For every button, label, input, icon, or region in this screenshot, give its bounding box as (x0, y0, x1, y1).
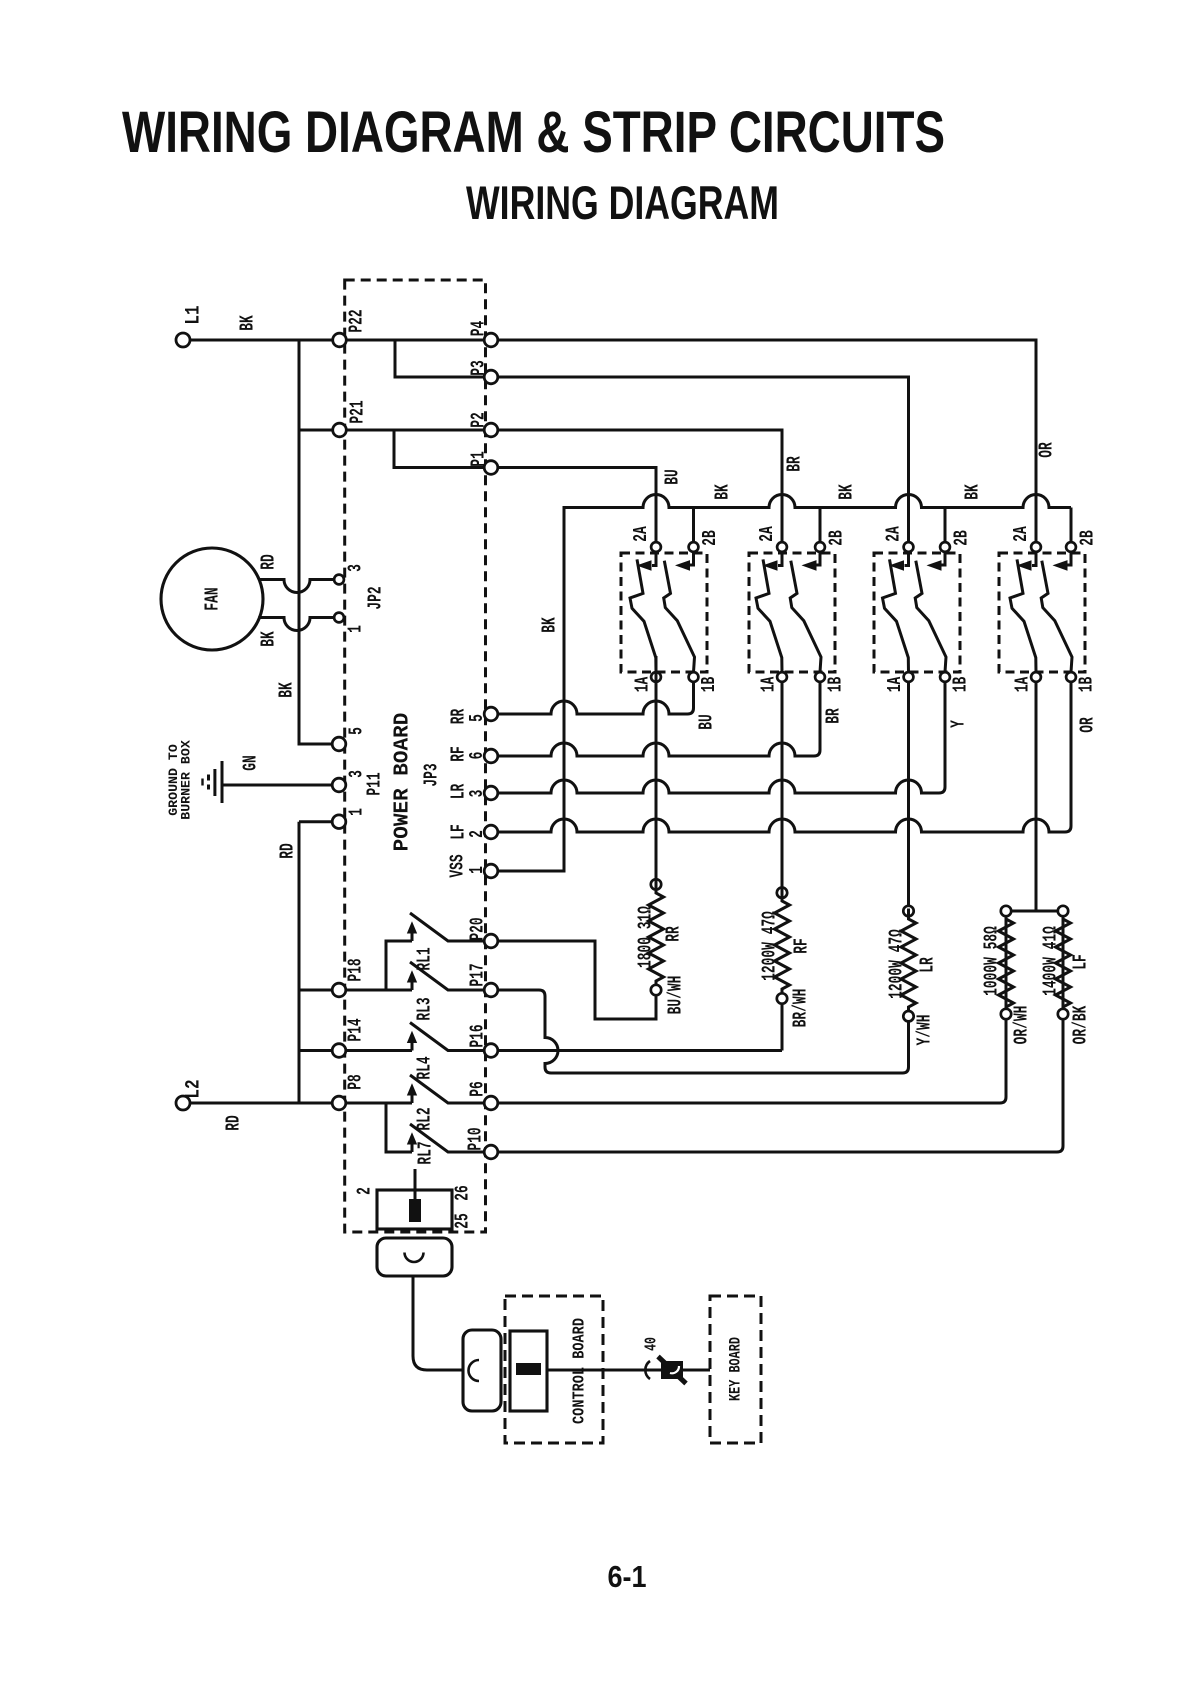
switch 1 2A lead into arrow (652, 552, 656, 566)
wire VSS to BK bus (with hops over element columns) (498, 495, 1071, 871)
connector P2 (484, 423, 498, 437)
connector P6 (484, 1096, 498, 1110)
svg-text:L1: L1 (183, 305, 205, 324)
svg-text:1200W 47Ω: 1200W 47Ω (885, 929, 907, 999)
element RR top terminal (651, 879, 661, 889)
switch 1 right contact blade (664, 561, 695, 673)
switch 2 terminal 2B (815, 542, 825, 552)
control board dashed outline (505, 1296, 603, 1443)
wire P22 to P4 (346, 339, 484, 342)
relay RL1 actuator shaft (411, 932, 414, 941)
switch 4 terminal 1A (1031, 672, 1041, 682)
svg-text:RF: RF (790, 938, 812, 954)
svg-text:RL3: RL3 (413, 997, 435, 1020)
relay RL2 blade (410, 1075, 484, 1103)
connector JP3 pin 5 (RR) (484, 707, 498, 721)
connector P22 (333, 333, 347, 347)
svg-text:2A: 2A (1009, 526, 1031, 542)
svg-text:KEY BOARD: KEY BOARD (727, 1337, 745, 1401)
svg-text:P10: P10 (464, 1127, 486, 1150)
wire element RR bottom loop to P20 (498, 941, 656, 1019)
wire switch 1 1A down to element RR (655, 682, 658, 880)
svg-text:1: 1 (345, 808, 367, 816)
wire P16 to RF bottom (498, 1049, 782, 1052)
svg-text:P21: P21 (346, 400, 368, 423)
wire fan RD to JP2 pin 3 with dip hop (259, 580, 334, 593)
svg-text:BURNER BOX: BURNER BOX (179, 740, 194, 820)
switch 2 terminal 2A (777, 542, 787, 552)
switch 2 right arrowhead (803, 561, 816, 570)
wire JP3-6 RF to switch 2 1B (with hops) (498, 682, 820, 756)
ground bar 2 (213, 769, 216, 796)
switch 4 right contact blade (1041, 561, 1072, 673)
terminal L2 (176, 1096, 190, 1110)
power board dashed outline (345, 280, 486, 1232)
wire JP3-5 RR to switch 1 1B (with hops) (498, 682, 694, 714)
element LR bottom terminal (903, 1011, 913, 1021)
svg-text:P8: P8 (344, 1074, 366, 1090)
svg-text:2A: 2A (882, 526, 904, 542)
feed wire for relay RL1 (386, 941, 412, 990)
svg-text:1A: 1A (883, 677, 905, 693)
control board mating connector (463, 1330, 501, 1411)
feed wire for relay RL2 (346, 1102, 412, 1105)
switch 2 left contact blade (756, 559, 782, 672)
relay RL4 actuator arrowhead (408, 1032, 417, 1043)
connector P18 (332, 983, 346, 997)
wire switch 2 1A down to element RF (781, 682, 784, 888)
wire L1 branch vertical BK to P11 pin 5 (299, 340, 332, 744)
switch 4 terminal 1B (1066, 672, 1076, 682)
relay RL1 actuator arrowhead (408, 923, 417, 934)
svg-text:P2: P2 (467, 412, 489, 428)
svg-text:BK: BK (538, 617, 560, 633)
svg-text:GN: GN (239, 755, 261, 771)
svg-text:2A: 2A (755, 526, 777, 542)
svg-text:1200W 47Ω: 1200W 47Ω (758, 911, 780, 981)
connector below power board (377, 1238, 452, 1276)
relay RL3 actuator shaft (411, 981, 414, 990)
svg-text:BR/WH: BR/WH (789, 989, 811, 1028)
svg-text:OR: OR (1035, 442, 1057, 458)
switch 1 terminal 1A (651, 672, 661, 682)
svg-text:3: 3 (344, 564, 366, 572)
svg-text:1: 1 (465, 866, 487, 874)
switch 4 2A lead into arrow (1032, 552, 1036, 566)
relay coil feed wire (414, 1169, 417, 1202)
feed wire for relay RL7 (386, 1103, 412, 1152)
control board connector contact (filled) (516, 1363, 541, 1375)
element RR bottom terminal (651, 985, 661, 995)
relay RL7 blade (410, 1124, 484, 1152)
svg-text:RL7: RL7 (414, 1141, 436, 1164)
svg-text:2B: 2B (825, 530, 847, 546)
switch 1 terminal 2B (689, 542, 699, 552)
wire P11 pin 3 to ground (GN) (222, 784, 332, 787)
fan motor FAN (161, 548, 263, 650)
relay RL3 actuator arrowhead (408, 972, 417, 983)
wire switch 3 1A down to element LR (907, 682, 910, 907)
wire switch 4 1A down to LF junction (1035, 682, 1038, 911)
svg-text:1B: 1B (824, 677, 846, 693)
svg-text:LR: LR (916, 957, 938, 973)
svg-text:1A: 1A (1011, 677, 1033, 693)
switch 1 terminal 2A (651, 542, 661, 552)
element RF top terminal (777, 888, 787, 898)
connector P4 (484, 333, 498, 347)
element LF-B top terminal (1058, 906, 1068, 916)
connector P11 pin 5 (332, 737, 346, 751)
switch 2 2A lead into arrow (778, 552, 782, 566)
relay RL4 blade (410, 1023, 484, 1051)
svg-text:3: 3 (465, 790, 487, 798)
svg-text:BR: BR (783, 456, 805, 472)
svg-text:P4: P4 (467, 321, 489, 337)
switch 1 terminal 1B (689, 672, 699, 682)
svg-text:Y: Y (947, 720, 969, 728)
connector P17 (484, 983, 498, 997)
svg-text:LF: LF (1069, 954, 1091, 970)
wire fan BK to JP2 pin 1 with dip hop (258, 618, 334, 631)
relay RL2 actuator shaft (411, 1094, 414, 1103)
wire P10 to LF-B bottom (498, 1020, 1063, 1153)
switch 4 left contact blade (1010, 559, 1036, 672)
switch 2 terminal 1A (777, 672, 787, 682)
svg-text:1B: 1B (949, 677, 971, 693)
switch 3 2A lead into arrow (905, 552, 909, 566)
element LF-A bottom terminal (1001, 1009, 1011, 1019)
svg-text:RR: RR (662, 926, 684, 942)
svg-text:40: 40 (643, 1337, 662, 1351)
svg-text:1B: 1B (1075, 677, 1097, 693)
element LR top terminal (903, 906, 913, 916)
connector JP2 pin 1 (334, 613, 344, 623)
svg-text:2B: 2B (950, 530, 972, 546)
svg-text:1: 1 (344, 625, 366, 633)
svg-text:5: 5 (465, 714, 487, 722)
switch 1 2B stub from bus (692, 508, 695, 543)
switch 2 dashed body (749, 553, 835, 672)
switch 2 2B stub from bus (819, 508, 822, 543)
connector notch arc (405, 1253, 424, 1263)
svg-text:2B: 2B (698, 530, 720, 546)
feed wire for relay RL3 (346, 989, 412, 992)
switch 3 terminal 2B (940, 542, 950, 552)
switch 3 left arrowhead (891, 561, 904, 570)
connector JP3 pin 3 (LR) (484, 786, 498, 800)
svg-text:P11: P11 (363, 772, 385, 795)
element LR resistor (901, 909, 916, 1012)
svg-text:P6: P6 (466, 1081, 488, 1097)
svg-text:BK: BK (257, 631, 279, 647)
LF junction bar (1011, 910, 1059, 913)
svg-text:POWER BOARD: POWER BOARD (392, 713, 415, 852)
wire JP3-3 LR to switch 3 1B (with hops) (498, 682, 945, 793)
ground bar 3 dashed (207, 775, 210, 790)
wire P4 to switch 4 2A (OR) (498, 340, 1036, 542)
svg-text:RD: RD (222, 1115, 244, 1131)
connector P8 (332, 1096, 346, 1110)
wire branch down to P3 (395, 340, 484, 377)
switch 1 2B lead into arrow (690, 552, 694, 565)
connector JP2 pin 3 (334, 575, 344, 585)
connector P16 (484, 1044, 498, 1058)
wire P6 to LF-A bottom (498, 1020, 1006, 1104)
element RR resistor (649, 656, 664, 985)
wire control board to key board (547, 1369, 710, 1372)
svg-text:1000W 58Ω: 1000W 58Ω (980, 926, 1002, 996)
svg-text:P20: P20 (466, 917, 488, 940)
cable from connector to control board connector (413, 1276, 463, 1370)
connector JP3 pin 6 (RF) (484, 749, 498, 763)
svg-text:BU: BU (661, 469, 683, 485)
relay RL1 blade (410, 913, 484, 941)
svg-text:BK: BK (236, 315, 258, 331)
svg-text:FAN: FAN (201, 587, 223, 610)
connector P20 (484, 934, 498, 948)
wire P1 to switch 1 2A (BU) (498, 468, 656, 543)
switch 1 right arrowhead (677, 561, 690, 570)
svg-text:1800 31Ω: 1800 31Ω (634, 906, 656, 968)
connector P1 (484, 461, 498, 475)
svg-text:OR: OR (1076, 717, 1098, 733)
wire P21 to P2 (346, 429, 484, 432)
ground bar 4 small (201, 779, 203, 786)
feed wire for relay RL4 (346, 1049, 412, 1052)
switch 4 left arrowhead (1018, 561, 1031, 570)
svg-text:P22: P22 (345, 309, 367, 332)
svg-text:5: 5 (345, 727, 367, 735)
switch 1 left arrowhead (638, 561, 651, 570)
terminal L1 (176, 333, 190, 347)
element LF-A top terminal (1001, 906, 1011, 916)
svg-text:2A: 2A (629, 526, 651, 542)
switch 3 terminal 2A (904, 542, 914, 552)
svg-text:6: 6 (465, 752, 487, 760)
element LF-B bottom terminal (1058, 1009, 1068, 1019)
key board dashed outline (710, 1296, 761, 1443)
switch 3 right contact blade (915, 561, 946, 673)
wire P3 to switch 3 2A (498, 377, 909, 542)
wire RD vertical to L2 row (298, 822, 301, 1103)
switch 4 terminal 2A (1031, 542, 1041, 552)
ribbon cable paren arc (645, 1361, 650, 1379)
connector P14 (332, 1044, 346, 1058)
control board connector housing (510, 1331, 547, 1411)
svg-text:JP3: JP3 (420, 763, 442, 786)
svg-text:25: 25 (451, 1213, 473, 1229)
wire P18 stub to RD vertical (299, 989, 332, 992)
svg-text:JP2: JP2 (364, 586, 386, 609)
switch 3 2B lead into arrow (942, 552, 946, 565)
relay RL3 blade (410, 962, 484, 990)
connector P11 pin 1 (332, 815, 346, 829)
svg-text:BR: BR (822, 708, 844, 724)
connector P11 pin 3 (332, 778, 346, 792)
svg-text:BU: BU (695, 714, 717, 730)
switch 2 terminal 1B (815, 672, 825, 682)
svg-text:OR/WH: OR/WH (1010, 1006, 1032, 1045)
svg-text:BU/WH: BU/WH (664, 976, 686, 1015)
svg-text:P1: P1 (467, 451, 489, 467)
switch 3 right arrowhead (928, 561, 941, 570)
switch 1 left contact blade (630, 559, 656, 672)
svg-text:1A: 1A (757, 677, 779, 693)
svg-text:2: 2 (353, 1187, 375, 1195)
switch 4 2B lead into arrow (1068, 552, 1072, 565)
relay RL7 actuator shaft (411, 1143, 414, 1152)
ground bar 1 (221, 761, 224, 803)
svg-text:P17: P17 (466, 963, 488, 986)
svg-text:1400W 41Ω: 1400W 41Ω (1039, 926, 1061, 996)
switch 3 2B stub from bus (944, 508, 947, 543)
relay coil core (filled) (409, 1199, 421, 1222)
wire L1 to P22 (BK) (190, 339, 333, 342)
relay RL4 actuator shaft (411, 1042, 414, 1051)
relay RL2 actuator arrowhead (408, 1085, 417, 1096)
element LF-A resistor (1000W) (999, 916, 1014, 1012)
svg-text:BK: BK (275, 682, 297, 698)
switch 3 left contact blade (883, 559, 909, 672)
switch 4 dashed body (999, 553, 1085, 672)
svg-text:L2: L2 (183, 1079, 205, 1098)
relay coil box (377, 1190, 452, 1229)
wire element RF bottom to P16 row (781, 1003, 784, 1050)
svg-text:1B: 1B (697, 677, 719, 693)
wire P21 stub to BK vertical (299, 429, 333, 432)
svg-text:WIRING DIAGRAM: WIRING DIAGRAM (466, 176, 779, 229)
svg-text:P14: P14 (344, 1018, 366, 1041)
svg-text:BK: BK (711, 484, 733, 500)
svg-text:2B: 2B (1076, 530, 1098, 546)
connector JP3 pin 1 (VSS) (484, 864, 498, 878)
switch 4 right arrowhead (1054, 561, 1067, 570)
svg-text:6-1: 6-1 (608, 1559, 647, 1594)
element RF resistor (775, 782, 790, 994)
connector P3 (484, 370, 498, 384)
svg-text:Y/WH: Y/WH (913, 1014, 935, 1045)
svg-text:2: 2 (465, 830, 487, 838)
switch 3 terminal 1A (904, 672, 914, 682)
svg-text:OR/BK: OR/BK (1069, 1005, 1091, 1044)
switch 3 dashed body (874, 553, 960, 672)
switch 2 right contact blade (790, 561, 821, 673)
switch 3 terminal 1B (940, 672, 950, 682)
svg-text:P3: P3 (467, 360, 489, 376)
wire P17 to LR bottom (hop over P16 row) (498, 990, 909, 1073)
switch 1 dashed body (621, 553, 707, 672)
wire P14 stub to RD vertical (299, 1049, 332, 1052)
switch 4 terminal 2B (1066, 542, 1076, 552)
connector JP3 pin 2 (LF) (484, 825, 498, 839)
svg-text:1A: 1A (631, 677, 653, 693)
element LF-B resistor (1400W) (1056, 916, 1071, 1063)
svg-text:P18: P18 (344, 958, 366, 981)
svg-text:P16: P16 (466, 1024, 488, 1047)
svg-text:WIRING DIAGRAM & STRIP CIRCUIT: WIRING DIAGRAM & STRIP CIRCUITS (122, 100, 945, 165)
svg-text:BK: BK (835, 484, 857, 500)
wire P11 pin 1 to RD vertical (299, 820, 332, 823)
svg-text:BK: BK (961, 484, 983, 500)
mating connector notch arc (469, 1360, 480, 1381)
svg-text:RD: RD (276, 843, 298, 859)
wire JP3-2 LF to switch 4 1B (with hops) (498, 682, 1071, 832)
switch 2 left arrowhead (764, 561, 777, 570)
wire L2 to P8 (RD) (190, 1102, 333, 1105)
switch 4 2B stub from bus (1070, 508, 1073, 543)
element RF bottom terminal (777, 993, 787, 1003)
wire P2 to switch 2 2A (498, 430, 782, 542)
wire branch down to P1 (394, 430, 484, 468)
svg-text:RL4: RL4 (413, 1056, 435, 1079)
switch 2 2B lead into arrow (817, 552, 821, 565)
svg-text:RD: RD (257, 554, 279, 570)
relay RL7 actuator arrowhead (408, 1134, 417, 1145)
connector P21 (333, 423, 347, 437)
svg-text:26: 26 (451, 1185, 473, 1201)
ribbon cable slash blob (658, 1357, 686, 1384)
connector P10 (484, 1145, 498, 1159)
